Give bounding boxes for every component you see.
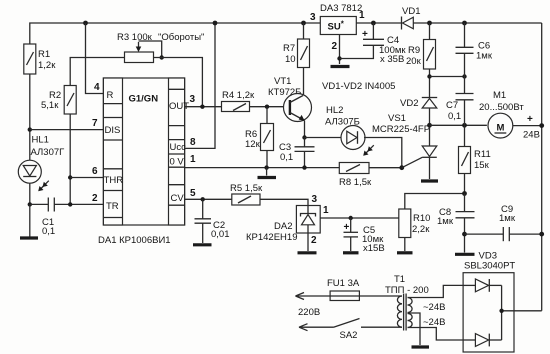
resistor R4 <box>222 90 255 112</box>
svg-text:R4 1,2к: R4 1,2к <box>222 90 255 101</box>
voltage ref DA2 <box>246 206 320 252</box>
ground transformer CT <box>412 345 430 348</box>
node C4 junction <box>371 21 376 26</box>
wire R3 left to R2 top <box>70 58 124 86</box>
svg-text:"Обороты": "Обороты" <box>158 32 204 43</box>
wire R4 to base <box>250 106 290 108</box>
svg-text:+: + <box>362 29 368 40</box>
svg-text:VD1: VD1 <box>402 6 420 17</box>
svg-text:~24В: ~24В <box>423 302 445 313</box>
switch SA2 <box>334 319 403 342</box>
svg-text:G1/GN: G1/GN <box>129 94 159 105</box>
svg-text:5: 5 <box>190 188 196 199</box>
diode VD1 <box>402 6 421 30</box>
svg-text:2: 2 <box>92 193 98 204</box>
wire pin7 DIS <box>30 118 104 130</box>
svg-text:4: 4 <box>94 82 100 93</box>
svg-text:MCR225-4FP: MCR225-4FP <box>372 124 430 135</box>
ground under C5 <box>343 251 359 254</box>
svg-text:10: 10 <box>285 54 296 65</box>
capacitor C9 <box>465 204 542 241</box>
arrow mains line2 <box>299 324 334 331</box>
svg-text:+: + <box>527 114 533 125</box>
svg-text:R9: R9 <box>408 45 420 56</box>
svg-text:HL2: HL2 <box>326 105 343 116</box>
node Ucc rail <box>213 21 218 26</box>
svg-text:2,2к: 2,2к <box>412 224 430 235</box>
svg-text:VD2: VD2 <box>400 98 418 109</box>
wire top rail left (+12V) <box>30 23 321 44</box>
resistor R10 <box>399 194 465 252</box>
svg-text:15к: 15к <box>474 160 490 171</box>
svg-text:SBL3040PT: SBL3040PT <box>464 261 515 272</box>
node X R9 bottom <box>427 74 431 78</box>
svg-text:DA2: DA2 <box>274 221 292 232</box>
potentiometer R3 <box>117 32 204 63</box>
svg-text:3: 3 <box>312 194 318 205</box>
svg-text:1мк: 1мк <box>476 51 493 62</box>
rectifier VD3 <box>463 251 542 353</box>
transformer T1 <box>385 274 445 345</box>
ground under C8 <box>455 253 475 256</box>
wire LED to TR node <box>29 183 31 204</box>
resistor R8 <box>339 163 402 189</box>
capacitor C7 <box>446 77 474 126</box>
svg-text:х15В: х15В <box>363 243 385 254</box>
node gate junction <box>399 165 404 170</box>
svg-text:1,2к: 1,2к <box>38 60 56 71</box>
capacitor C5 polar <box>344 218 385 254</box>
svg-text:DIS: DIS <box>105 125 121 136</box>
node X on C6/C7 line <box>462 74 466 78</box>
svg-text:3: 3 <box>190 94 196 105</box>
resistor R6 <box>245 107 274 168</box>
wire R3 to OUT <box>154 58 203 107</box>
arrow mains line1 <box>296 293 331 300</box>
svg-text:R: R <box>107 90 114 101</box>
svg-text:DA3 7812: DA3 7812 <box>320 3 362 14</box>
wire pin5 CV <box>185 188 232 199</box>
svg-text:КР142ЕН19: КР142ЕН19 <box>246 232 298 243</box>
resistor R9 <box>406 23 436 98</box>
node emitter junction <box>302 135 306 139</box>
node R9 rail <box>427 21 432 26</box>
thyristor VS1 <box>372 113 437 179</box>
svg-text:6: 6 <box>92 166 98 177</box>
wire top rail right (+24V unregulated) <box>356 22 541 24</box>
capacitor C1 <box>30 198 55 238</box>
capacitor C6 <box>456 23 493 77</box>
node DA3 input rail <box>301 21 306 26</box>
resistor R1 <box>24 44 56 74</box>
svg-text:20...500Вт: 20...500Вт <box>479 102 524 113</box>
ground under HL1/C1 <box>20 236 38 239</box>
wire pin8 Ucc to rail <box>185 23 215 148</box>
ground under DA3 <box>331 65 350 68</box>
capacitor C4 polar <box>340 23 407 65</box>
ground under C2 <box>193 243 212 246</box>
node top rail pin4 drop <box>83 21 88 26</box>
node C8 bottom <box>462 232 467 237</box>
svg-text:R11: R11 <box>474 149 491 160</box>
wire secondary top to bridge <box>408 285 464 297</box>
wire pin1 0V line <box>185 154 340 168</box>
resistor R2 <box>41 86 76 115</box>
svg-text:M: M <box>496 123 504 134</box>
svg-text:1: 1 <box>323 205 329 216</box>
wire pin4 R <box>86 23 104 94</box>
wire pin3 OUT <box>185 94 222 107</box>
svg-text:R1: R1 <box>38 49 50 60</box>
svg-text:VS1: VS1 <box>388 113 406 124</box>
capacitor C8 <box>437 194 475 253</box>
svg-text:+: + <box>344 222 350 233</box>
svg-text:CV: CV <box>171 193 185 204</box>
svg-text:АЛ307Г: АЛ307Г <box>31 147 65 158</box>
LED HL1 <box>18 135 64 192</box>
svg-text:0,1: 0,1 <box>448 111 461 122</box>
ground under DA2 <box>298 251 317 254</box>
node C3 bottom on 0V <box>302 165 306 169</box>
node C6 rail <box>462 21 467 26</box>
wire node A <box>430 124 487 126</box>
wire secondary bottom to bridge <box>408 328 464 341</box>
text 220V <box>298 307 320 318</box>
svg-text:R8 1,5к: R8 1,5к <box>339 177 372 188</box>
text diode note <box>322 81 395 92</box>
wire gate to VS1 <box>402 157 423 167</box>
svg-text:220В: 220В <box>298 307 320 318</box>
ground under R10 <box>397 251 413 254</box>
wire R5 to DA2 <box>260 194 318 206</box>
node A left <box>427 123 432 128</box>
node C5 junction <box>349 216 353 220</box>
wire right rail <box>541 23 543 311</box>
node TR junction <box>68 202 72 206</box>
resistor R11 <box>459 125 491 193</box>
node OUT/R3 junction <box>200 105 204 109</box>
transistor Q1 VT1 <box>268 76 312 138</box>
node C9 rail <box>539 232 544 237</box>
op-amp U1 timer IC DA1 body <box>98 78 189 246</box>
svg-text:8: 8 <box>190 137 196 148</box>
node TR/C1 <box>28 202 32 206</box>
svg-text:5,1к: 5,1к <box>41 100 59 111</box>
node R6 top <box>265 105 269 109</box>
wire pin6 THR <box>70 166 103 178</box>
diode VD2 <box>400 98 437 126</box>
node THR junction <box>68 175 72 179</box>
node B R11 bottom <box>462 191 467 196</box>
node CV/C2 <box>201 197 205 201</box>
svg-text:R10: R10 <box>413 213 430 224</box>
svg-text:ТПП - 200: ТПП - 200 <box>385 285 429 296</box>
svg-text:2: 2 <box>332 41 338 52</box>
node motor rail <box>539 123 544 128</box>
svg-text:24В: 24В <box>523 130 540 141</box>
node A right <box>462 123 467 128</box>
fuse FU1 <box>327 278 402 301</box>
wire DA2 ref out <box>320 205 399 218</box>
svg-text:VT1: VT1 <box>274 76 291 87</box>
resistor R7 <box>283 23 310 68</box>
ground under VS1 <box>421 179 438 182</box>
svg-text:1мк: 1мк <box>499 213 516 224</box>
svg-text:Ucc: Ucc <box>170 142 187 153</box>
wire R2 bottom to THR/TR <box>69 114 71 204</box>
svg-text:1: 1 <box>190 154 196 165</box>
wire left rail R1 to LED <box>29 74 31 160</box>
svg-text:R7: R7 <box>283 43 295 54</box>
motor M1 <box>479 90 542 141</box>
svg-text:20к: 20к <box>406 56 422 67</box>
svg-text:3: 3 <box>310 12 316 23</box>
svg-text:0,1: 0,1 <box>280 152 293 163</box>
wire LED node to ground <box>29 204 31 236</box>
svg-text:0,01: 0,01 <box>211 229 230 240</box>
wire pin2 TR <box>54 193 103 204</box>
svg-text:~24В: ~24В <box>423 317 445 328</box>
capacitor C2 <box>195 199 230 243</box>
svg-text:1мк: 1мк <box>437 216 454 227</box>
svg-text:C7: C7 <box>446 100 458 111</box>
resistor R5 <box>230 183 263 205</box>
svg-text:DA1 КР1006ВИ1: DA1 КР1006ВИ1 <box>98 235 171 246</box>
svg-text:0,1: 0,1 <box>42 226 55 237</box>
node bridge output <box>499 309 503 313</box>
svg-text:THR: THR <box>104 175 124 186</box>
svg-text:M1: M1 <box>493 90 506 101</box>
svg-text:х 35В: х 35В <box>380 54 404 65</box>
svg-text:1: 1 <box>359 10 365 21</box>
svg-text:TR: TR <box>106 201 119 212</box>
svg-text:SA2: SA2 <box>340 330 358 341</box>
svg-text:HL1: HL1 <box>32 135 49 146</box>
node DIS tap <box>28 127 32 131</box>
regulator DA3 <box>310 3 365 64</box>
svg-text:VD1-VD2 IN4005: VD1-VD2 IN4005 <box>322 81 395 92</box>
svg-text:0 V: 0 V <box>170 157 185 168</box>
node 0V ground stub <box>264 165 268 175</box>
svg-text:7: 7 <box>92 118 98 129</box>
ground on 0V line <box>258 176 277 179</box>
svg-text:12к: 12к <box>245 139 261 150</box>
LED HL2 <box>305 105 402 168</box>
svg-text:FU1 3А: FU1 3А <box>327 278 360 289</box>
capacitor C3 <box>279 138 315 168</box>
svg-text:Т1: Т1 <box>394 274 405 285</box>
svg-text:2: 2 <box>311 235 317 246</box>
node R3 wiper to right terminal <box>160 55 164 59</box>
wire node X crossover <box>430 76 465 78</box>
wire R7 to collector <box>303 68 305 96</box>
svg-text:R5 1,5к: R5 1,5к <box>230 183 263 194</box>
